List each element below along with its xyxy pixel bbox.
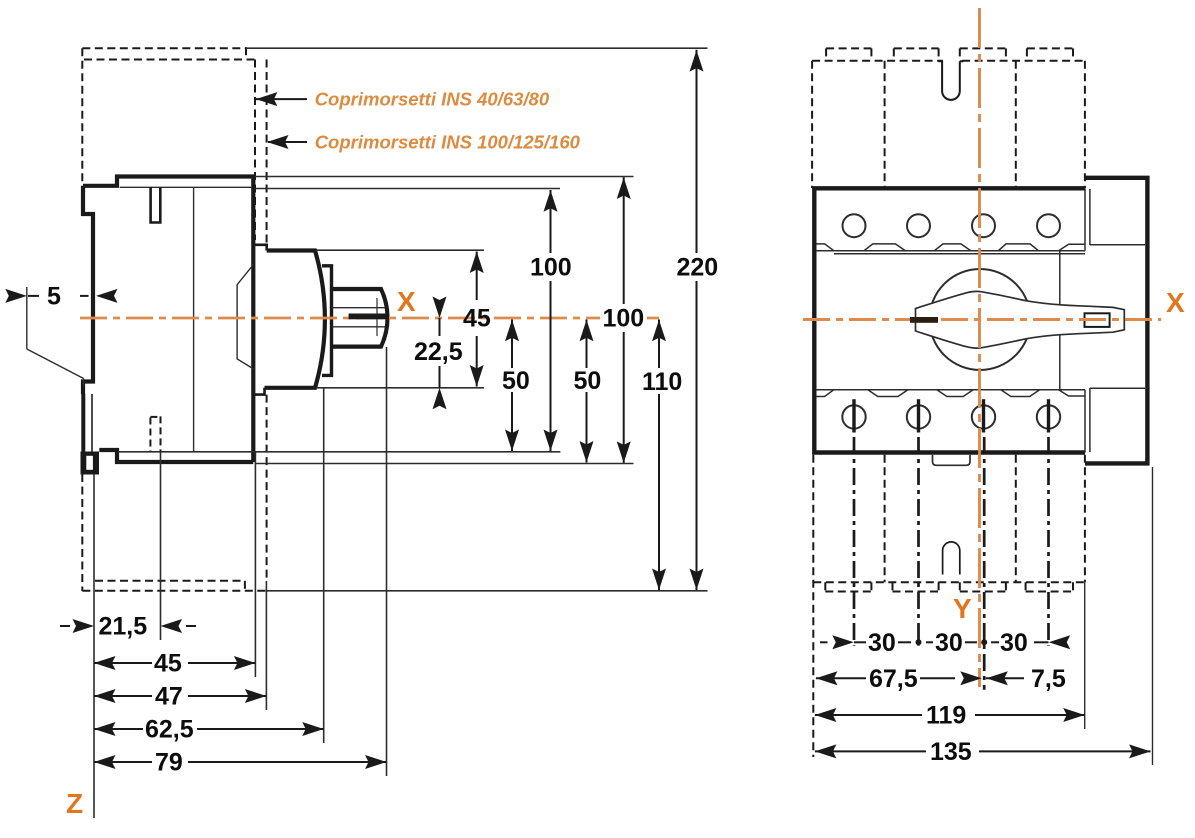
dimension 135: [815, 738, 1151, 766]
right view bottom terminal circles with screw slots: [842, 405, 1060, 428]
left view knob: [332, 289, 388, 347]
dimension 220: [677, 50, 719, 590]
svg-text:30: 30: [1000, 629, 1028, 657]
dimension 119: [815, 702, 1085, 730]
right view middle divider line: [1059, 251, 1061, 390]
svg-text:100: 100: [603, 305, 645, 333]
right view extension lines: [1085, 467, 1153, 765]
right view top terminal circles: [843, 214, 1061, 237]
coprimorsetti INS 100/125/160 leader arrow: [267, 132, 581, 153]
right view bottom cover dashed: [813, 455, 1085, 757]
left view handle bezel trapezoid: [237, 264, 254, 369]
right view handle base circle: [930, 269, 1031, 370]
right view bottom band wavy edge: [817, 390, 1086, 397]
right view top U notch: [943, 58, 959, 64]
right view bottom center tab: [933, 455, 971, 465]
svg-text:30: 30: [868, 629, 896, 657]
left view handle bezel dome: [254, 245, 325, 395]
right view handle pointer bar: [910, 317, 938, 323]
left view extension lines: [94, 48, 708, 818]
left view bottom foot: [81, 452, 100, 475]
svg-text:50: 50: [502, 367, 530, 395]
svg-text:135: 135: [930, 738, 972, 766]
svg-text:Y: Y: [953, 593, 972, 624]
svg-text:7,5: 7,5: [1031, 665, 1066, 693]
dimension 30 row: [820, 629, 1070, 657]
dimension 45 horizontal: [94, 650, 255, 678]
right view pole centerlines below: [854, 437, 1049, 690]
coprimorsetti INS 40/63/80 leader arrow: [256, 89, 550, 110]
dimension 7,5: [986, 665, 1066, 693]
dimension 22,5: [414, 297, 463, 410]
svg-text:5: 5: [47, 283, 61, 311]
right view top cover dashed: [812, 48, 1085, 188]
svg-text:47: 47: [155, 683, 183, 711]
svg-text:119: 119: [926, 702, 966, 730]
left view handle collar: [322, 266, 332, 376]
svg-text:62,5: 62,5: [145, 716, 194, 744]
svg-text:79: 79: [155, 749, 183, 777]
svg-text:Coprimorsetti INS 100/125/160: Coprimorsetti INS 100/125/160: [315, 132, 581, 153]
dimension 110: [642, 320, 682, 591]
svg-text:30: 30: [935, 629, 963, 657]
svg-text:100: 100: [530, 254, 572, 282]
right view X centerline: [803, 287, 1185, 320]
right view handle: [916, 291, 1125, 348]
dimension 62,5: [94, 716, 324, 744]
svg-text:67,5: 67,5: [869, 665, 918, 693]
right view top band wavy edge: [817, 244, 1086, 254]
dimension 100 right: [600, 177, 647, 463]
left view terminal cover dashed outline: [82, 47, 266, 591]
left view lower-left thin rails: [83, 394, 92, 453]
dimension 21,5: [60, 613, 196, 641]
left view body interior lines: [120, 187, 252, 452]
dimension 67,5: [816, 665, 982, 693]
left view 5-dim leader diagonal: [27, 287, 84, 387]
right view Y centerline: [953, 8, 980, 687]
dimension 100 left: [530, 190, 572, 451]
dimension 79: [94, 749, 387, 777]
svg-text:Z: Z: [66, 788, 83, 819]
svg-text:45: 45: [154, 650, 182, 678]
svg-text:220: 220: [677, 254, 719, 282]
svg-text:21,5: 21,5: [99, 613, 148, 641]
right view screw slot bars: [854, 399, 1049, 432]
dimension 47: [94, 683, 266, 711]
svg-text:Coprimorsetti INS 40/63/80: Coprimorsetti INS 40/63/80: [315, 89, 550, 110]
dimension 50 first: [502, 320, 530, 452]
left view top notch slot: [151, 187, 161, 222]
left view body outline thick: [83, 177, 253, 463]
svg-text:50: 50: [574, 367, 602, 395]
dimension 45 vertical: [463, 252, 491, 387]
left view knob pointer bar: [349, 314, 386, 320]
left view X centerline: [80, 286, 663, 318]
dimension 5: [5, 283, 117, 311]
right view bottom cover arch cutout: [943, 542, 960, 575]
left view bottom dashed slot: [150, 416, 160, 451]
svg-text:110: 110: [642, 368, 682, 396]
right view side flange: [1085, 178, 1147, 464]
right view body outline: [814, 188, 1085, 452]
svg-text:X: X: [1166, 287, 1185, 318]
dimension 50 second: [574, 320, 602, 463]
svg-text:22,5: 22,5: [414, 338, 463, 366]
svg-text:X: X: [397, 286, 416, 317]
svg-text:45: 45: [463, 305, 491, 333]
